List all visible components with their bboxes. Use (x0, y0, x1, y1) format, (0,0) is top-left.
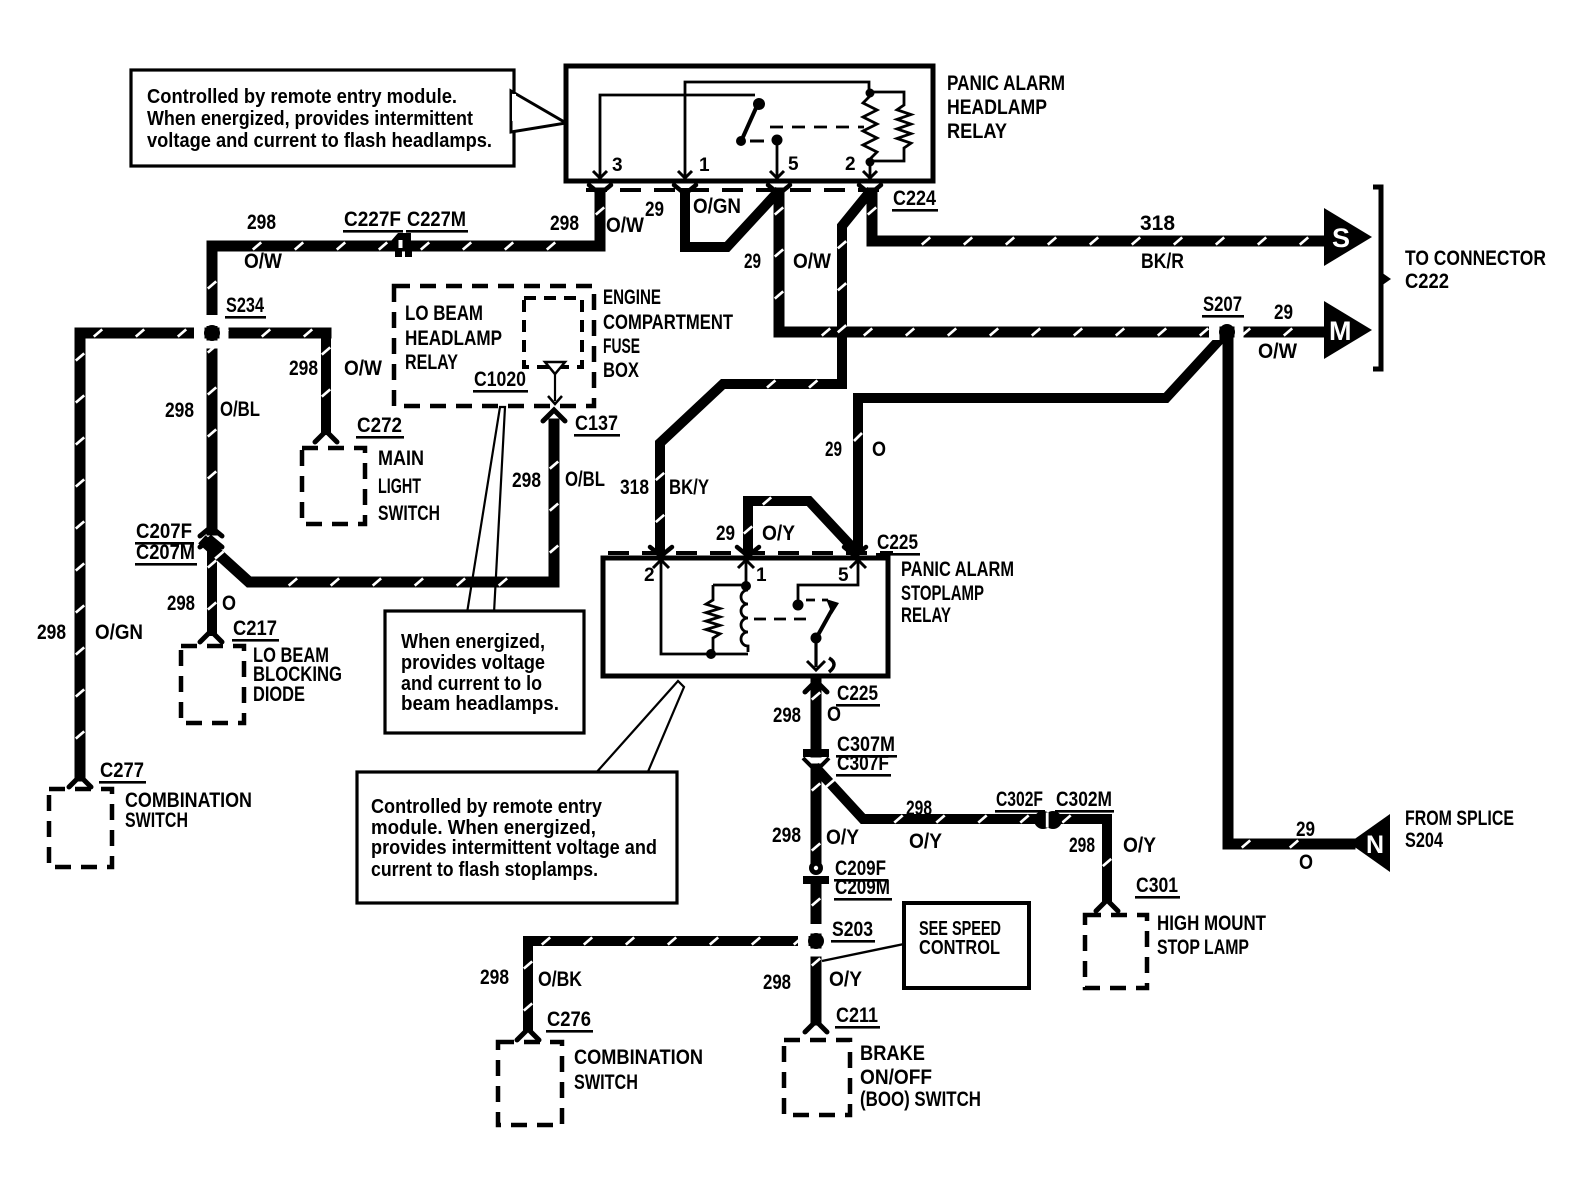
relay1 pin 2 internal wire (869, 162, 872, 179)
connector label C211 (835, 1004, 880, 1029)
wire gauge label 298 O/GN (37, 621, 66, 644)
component label LIGHT (378, 475, 421, 498)
svg-text:provides voltage: provides voltage (401, 652, 545, 674)
connector C1020 fuse terminal (545, 362, 565, 404)
component label ON/OFF (860, 1066, 932, 1089)
wire gauge label 29 O/Y loop (716, 522, 735, 545)
svg-text:5: 5 (788, 154, 799, 175)
svg-text:STOP LAMP: STOP LAMP (1157, 936, 1249, 959)
wire color label O/BL (220, 398, 260, 421)
wire gap right of splice S234 (220, 325, 229, 341)
wire 298 O/W from relay pin 3 to splice S234 (208, 193, 604, 331)
svg-text:O/Y: O/Y (909, 830, 942, 853)
svg-text:M: M (1329, 316, 1352, 346)
svg-text:PANIC ALARM: PANIC ALARM (947, 72, 1065, 95)
svg-text:C307F: C307F (837, 752, 889, 775)
relay1 coil bottom junction dot (866, 158, 875, 167)
connector label C276 (546, 1008, 593, 1033)
relay2 switch output wire (814, 641, 817, 667)
wire color label BK/R (1141, 250, 1184, 273)
svg-text:O/GN: O/GN (95, 621, 143, 644)
relay2 pin label 5 (838, 565, 849, 586)
bracket for connector C222 (1373, 187, 1391, 369)
connector label C207F (135, 520, 194, 545)
wire color label O/W at S207 (1258, 340, 1297, 363)
svg-text:C225: C225 (837, 682, 878, 705)
wire gauge label 298 C211 (763, 971, 791, 994)
svg-text:beam headlamps.: beam headlamps. (401, 693, 559, 715)
wire 298 from stoplamp relay switch to connector C225 (812, 678, 820, 752)
connector label C209M (834, 876, 892, 901)
relay1 pin exit arrow at x=685 (678, 171, 692, 178)
svg-text:C225: C225 (877, 531, 918, 554)
relay2 parallel coil bumps (741, 590, 748, 652)
connector C272 terminal arrow (315, 431, 337, 442)
wire gauge label 298 above C209F (772, 824, 801, 847)
svg-text:S: S (1332, 223, 1350, 253)
splice S234 junction dot (204, 325, 220, 341)
wire gauge label 298 O/BL (165, 399, 194, 422)
svg-text:C302M: C302M (1056, 788, 1112, 811)
connector C277 terminal arrow (69, 776, 91, 787)
svg-text:C227M: C227M (407, 208, 466, 231)
relay2 pin 2 internal wire (661, 562, 748, 654)
component label ENGINE (603, 286, 661, 309)
brake on/off switch dashed box (784, 1040, 850, 1115)
connector label C302M (1055, 788, 1114, 813)
wire color label O at pin5 drop (872, 438, 886, 461)
svg-text:C217: C217 (233, 617, 277, 640)
callout 3 text line 3 (371, 837, 657, 859)
wire 298 O/BL from S234 down to connector C207F (208, 331, 216, 530)
relay2 output comma mark (829, 658, 834, 672)
svg-text:STOPLAMP: STOPLAMP (901, 582, 984, 605)
wire 298 O/W branch from S234 to connector C272 (322, 333, 330, 430)
wire 298 O/Y from C209M through splice S203 to connector C211 (812, 884, 820, 1020)
callout 1 text line 2 (147, 108, 473, 130)
svg-text:C207F: C207F (136, 520, 192, 543)
wire color label O/W top left (244, 250, 282, 273)
see speed control text line 2 (919, 937, 1000, 959)
callout 3 text line 2 (371, 817, 596, 839)
svg-text:O/Y: O/Y (826, 826, 859, 849)
component label BRAKE (860, 1042, 925, 1065)
component label FUSE (603, 335, 640, 358)
relay1 coil top junction dot (866, 89, 875, 98)
svg-text:Controlled by remote entry mod: Controlled by remote entry module. (147, 86, 457, 108)
connector C224 dashed line (586, 188, 888, 192)
svg-text:O/BL: O/BL (565, 468, 605, 491)
svg-text:S204: S204 (1405, 829, 1443, 852)
svg-text:voltage and current to flash h: voltage and current to flash headlamps. (147, 130, 492, 152)
svg-text:Controlled by remote entry: Controlled by remote entry (371, 796, 603, 818)
svg-text:O/W: O/W (793, 250, 831, 273)
connector label C137 (574, 412, 620, 437)
connector C224 terminal arrow pin 2 (859, 185, 881, 194)
wire 298 O/BL from C207 connector to fuse box connector C137 (206, 424, 558, 586)
connector C211 terminal arrow (805, 1021, 827, 1032)
wire color label O/Y above C209F (826, 826, 859, 849)
relay1 pin 1 internal wire (685, 82, 869, 179)
svg-text:HEADLAMP: HEADLAMP (947, 96, 1047, 119)
panic alarm headlamp relay box (566, 66, 933, 181)
see speed control note pointer line (822, 944, 904, 961)
wire color label O/BL C137 (565, 468, 605, 491)
component label STOPLAMP (901, 582, 984, 605)
svg-text:29: 29 (825, 438, 842, 461)
connector C225 terminal arrow pin 2 (650, 547, 672, 556)
relay1 coil linkage dashed line (770, 126, 864, 129)
svg-text:1: 1 (699, 155, 710, 176)
component label MAIN (378, 447, 424, 470)
component label SWITCH left (125, 809, 188, 832)
hatch tick on wire 29 vertical (854, 433, 862, 441)
component label LO BEAM (diode) (253, 644, 329, 667)
svg-text:C301: C301 (1136, 874, 1178, 897)
relay1 pin 5 contact dot (772, 135, 783, 146)
wire gauge label 29 pin1 (645, 198, 664, 221)
component label DIODE (253, 683, 305, 706)
svg-text:HIGH MOUNT: HIGH MOUNT (1157, 912, 1266, 935)
svg-text:298: 298 (550, 212, 579, 235)
svg-text:C302F: C302F (996, 788, 1043, 811)
svg-text:When energized,: When energized, (401, 631, 545, 653)
relay1 pin label 2 (845, 154, 856, 175)
svg-text:O/GN: O/GN (693, 195, 741, 218)
svg-text:O/W: O/W (606, 214, 644, 237)
svg-text:COMPARTMENT: COMPARTMENT (603, 311, 733, 334)
wire color label O at C217 (222, 592, 236, 615)
relay1 switch pivot dot (753, 98, 765, 110)
svg-text:5: 5 (838, 565, 849, 586)
wire color label O below C225 (827, 703, 841, 726)
wire gap above splice S203 (808, 924, 824, 934)
connector label C217 (232, 617, 279, 642)
svg-text:O/W: O/W (1258, 340, 1297, 363)
relay2 switch contact dot (811, 633, 822, 644)
component label BLOCKING (253, 663, 342, 686)
wire gauge label 298 right of C227M (550, 212, 579, 235)
panic alarm stoplamp relay box (603, 558, 888, 676)
svg-text:LO BEAM: LO BEAM (405, 302, 483, 325)
callout 2 text line 1 (401, 631, 545, 653)
wire 298 O/Y from C307F to connector C209F (812, 769, 820, 864)
svg-text:C272: C272 (357, 414, 402, 437)
svg-text:298: 298 (773, 704, 801, 727)
svg-text:LIGHT: LIGHT (378, 475, 421, 498)
svg-text:298: 298 (37, 621, 66, 644)
wire gap left of splice S234 (194, 325, 205, 341)
connector C225 terminal arrow pin 5 (844, 547, 866, 556)
relay2 output arrowhead (807, 661, 825, 670)
svg-text:29: 29 (1274, 301, 1293, 324)
component label SWITCH bottom (574, 1071, 638, 1094)
connector label C277 (99, 759, 146, 784)
connector C207F C207M inline connector symbol (200, 527, 222, 547)
connector C307M C307F inline connector symbol (803, 749, 829, 771)
wire color label O/Y branch (909, 830, 942, 853)
see speed control text line 1 (919, 918, 1001, 940)
component label HIGH MOUNT (1157, 912, 1266, 935)
component label BOX (603, 359, 639, 382)
svg-text:BOX: BOX (603, 359, 639, 382)
svg-text:provides intermittent voltage: provides intermittent voltage and (371, 837, 657, 859)
wire gauge label 29 pin5 (744, 250, 761, 273)
svg-text:O: O (827, 703, 841, 726)
relay1 pin exit arrow at x=600 (593, 171, 607, 178)
svg-text:298: 298 (906, 797, 932, 820)
svg-text:BK/R: BK/R (1141, 250, 1184, 273)
relay2 pin entry arrow pin 2 (653, 560, 669, 568)
svg-text:O: O (222, 592, 236, 615)
relay1 pin label 3 (612, 155, 623, 176)
relay2 coil resistor (706, 585, 720, 654)
callout note box pointer wedge to stoplamp relay (595, 681, 684, 774)
wire 298 O/BL from C207M to connector C217 lo beam blocking diode (208, 546, 216, 631)
svg-text:O/Y: O/Y (762, 522, 795, 545)
svg-text:FROM SPLICE: FROM SPLICE (1405, 807, 1514, 830)
connector C276 terminal arrow (517, 1029, 539, 1040)
component label RELAY (stoplamp relay) (901, 604, 951, 627)
splice label S234 (225, 294, 266, 319)
label S204 (1405, 829, 1443, 852)
svg-text:RELAY: RELAY (947, 120, 1007, 143)
svg-text:current to flash stoplamps.: current to flash stoplamps. (371, 859, 598, 881)
wire gap left of splice S203 (798, 933, 809, 949)
svg-text:COMBINATION: COMBINATION (574, 1046, 703, 1069)
svg-text:298: 298 (1069, 834, 1095, 857)
svg-text:298: 298 (247, 211, 276, 234)
connector label C225 bottom (836, 682, 880, 707)
splice S207 junction dot (1219, 324, 1235, 340)
wire 29 from splice S207 to stoplamp relay pin 5 (858, 335, 1224, 548)
wire color label O/BK (538, 968, 582, 991)
label C222 (1405, 270, 1449, 293)
svg-text:BK/Y: BK/Y (669, 476, 709, 499)
component label COMBINATION left (125, 789, 252, 812)
label FROM SPLICE (1405, 807, 1514, 830)
connector C225 dashed line (608, 551, 893, 555)
svg-text:298: 298 (772, 824, 801, 847)
callout 1 text line 3 (147, 130, 492, 152)
relay1 pin label 1 (699, 155, 710, 176)
svg-text:O/BL: O/BL (220, 398, 260, 421)
wire gauge label 298 C301 (1069, 834, 1095, 857)
splice S203 junction dot (808, 933, 824, 949)
wire gauge label 29 at S207 (1274, 301, 1293, 324)
connector C225 terminal arrow pin 1 (737, 547, 759, 556)
svg-text:C224: C224 (893, 187, 936, 210)
label TO CONNECTOR (1405, 247, 1546, 270)
connector label C227M (406, 208, 468, 233)
svg-text:CONTROL: CONTROL (919, 937, 1000, 959)
svg-text:SWITCH: SWITCH (574, 1071, 638, 1094)
svg-text:C209M: C209M (835, 876, 890, 899)
wire 29 O/W from relay pin 5 through splice S207 to arrow M (775, 193, 1326, 336)
lo beam headlamp relay dashed box (394, 286, 594, 406)
relay2 pin entry arrow pin 1 (738, 560, 754, 568)
connector C224 terminal arrow pin 5 (768, 185, 790, 194)
high mount stop lamp dashed box (1085, 915, 1147, 988)
connector label C225 top (876, 531, 920, 556)
svg-text:318: 318 (1140, 212, 1175, 235)
wire color label O at N arrow (1299, 851, 1313, 874)
svg-text:(BOO) SWITCH: (BOO) SWITCH (860, 1088, 981, 1111)
component label PANIC ALARM (headlamp relay) (947, 72, 1065, 95)
wire gauge label 298 O/BK (480, 966, 509, 989)
svg-text:1: 1 (756, 565, 767, 586)
svg-text:O/BK: O/BK (538, 968, 582, 991)
relay1 pin 5 internal wire (776, 145, 779, 179)
svg-text:O: O (1299, 851, 1313, 874)
relay1 coil resistor (863, 96, 877, 159)
connector label C227F (343, 208, 403, 233)
callout 3 text line 4 (371, 859, 598, 881)
svg-text:C207M: C207M (136, 541, 195, 564)
svg-text:29: 29 (645, 198, 664, 221)
wire 298 O/BK from splice S203 to connector C276 combination switch (524, 937, 816, 1026)
callout 2 text line 3 (401, 673, 542, 695)
relay1 contact link dash (750, 140, 764, 143)
relay2 pin entry arrow pin 5 (850, 560, 866, 568)
component label RELAY (headlamp relay) (947, 120, 1007, 143)
wire color label O/W C272 branch (344, 357, 382, 380)
wire gauge label 29 at N arrow (1296, 818, 1315, 841)
component label STOP LAMP (1157, 936, 1249, 959)
relay2 pin label 2 (644, 565, 655, 586)
svg-text:298: 298 (512, 469, 541, 492)
relay2 pin 1 internal wire (745, 562, 748, 583)
wire gauge label 298 C272 branch (289, 357, 318, 380)
lo beam blocking diode dashed box (181, 646, 244, 723)
component label COMPARTMENT (603, 311, 733, 334)
wire gauge label 298 C137 (512, 469, 541, 492)
svg-text:O/Y: O/Y (829, 968, 862, 991)
wire gap right of splice S207 (1235, 324, 1244, 340)
relay1 pin exit arrow at x=870 (863, 171, 877, 178)
connector C227F C227M inline connector symbol (391, 233, 412, 257)
wire color label O/Y C211 (829, 968, 862, 991)
component label PANIC ALARM (stoplamp relay) (901, 558, 1014, 581)
svg-text:298: 298 (289, 357, 318, 380)
relay2 coil top link (713, 584, 746, 587)
wire color label O/W pin3 wire (606, 214, 644, 237)
callout note box pointer wedge to lo beam relay (467, 407, 505, 613)
svg-text:TO CONNECTOR: TO CONNECTOR (1405, 247, 1546, 270)
wire gauge label 29 at pin5 drop (825, 438, 842, 461)
wire 29 horizontal to arrow N (1228, 840, 1350, 847)
svg-text:BRAKE: BRAKE (860, 1042, 925, 1065)
svg-text:C276: C276 (547, 1008, 591, 1031)
arrow S to connector C222 (1324, 208, 1372, 266)
wire color label O/Y C301 (1123, 834, 1156, 857)
wire color label O/GN pin1 (693, 195, 741, 218)
svg-text:RELAY: RELAY (405, 351, 458, 374)
connector C224 terminal arrow pin 3 (589, 185, 611, 194)
callout 1 text line 1 (147, 86, 457, 108)
svg-text:FUSE: FUSE (603, 335, 640, 358)
connector label C209F (834, 857, 888, 882)
relay2 switch arm (818, 599, 839, 635)
connector label C301 (1135, 874, 1180, 899)
callout note box: when energized lo beam headlamps (385, 611, 584, 733)
connector label C272 (356, 414, 404, 439)
connector label C307F (836, 752, 891, 777)
splice label S203 (831, 918, 875, 943)
connector C302F C302M inline connector symbol (1034, 811, 1062, 829)
callout note box: controlled by remote entry module (stoplamps) (357, 772, 677, 903)
wire 318 BK/R from relay pin 2 to arrow S (868, 193, 1326, 245)
wire 29 O/Y loop from stoplamp pin 1 to pin 5 (744, 497, 852, 548)
splice label S207 (1202, 293, 1244, 318)
svg-text:HEADLAMP: HEADLAMP (405, 327, 502, 350)
svg-text:298: 298 (167, 592, 195, 615)
svg-text:3: 3 (612, 155, 623, 176)
svg-text:PANIC ALARM: PANIC ALARM (901, 558, 1014, 581)
component label LO BEAM (relay) (405, 302, 483, 325)
svg-text:and current to lo: and current to lo (401, 673, 542, 695)
svg-text:O/Y: O/Y (1123, 834, 1156, 857)
svg-text:MAIN: MAIN (378, 447, 424, 470)
svg-text:298: 298 (480, 966, 509, 989)
svg-text:29: 29 (1296, 818, 1315, 841)
svg-text:module. When energized,: module. When energized, (371, 817, 596, 839)
arrow M to connector C222 (1324, 301, 1372, 359)
wire 298 O/Y branch from C307F to high mount stop lamp connector C301 (818, 770, 1111, 898)
connector C217 terminal arrow (200, 631, 222, 642)
wire gauge label 298 below C225 (773, 704, 801, 727)
relay2 pin 5 internal wire (798, 562, 858, 600)
svg-text:29: 29 (744, 250, 761, 273)
svg-text:318: 318 (620, 476, 649, 499)
svg-text:2: 2 (644, 565, 655, 586)
component label HEADLAMP (lo beam relay) (405, 327, 502, 350)
svg-text:O/W: O/W (344, 357, 382, 380)
relay2 coil top junction dot (741, 581, 751, 591)
fuse dashed box inside fuse box (524, 298, 582, 367)
component label (BOO) SWITCH (860, 1088, 981, 1111)
relay1 parallel resistor (870, 92, 911, 161)
svg-text:C1020: C1020 (474, 368, 526, 391)
wire gap left of splice S207 (1209, 324, 1220, 340)
component label HEADLAMP (headlamp relay) (947, 96, 1047, 119)
svg-text:O/W: O/W (244, 250, 282, 273)
svg-text:C277: C277 (100, 759, 144, 782)
component label RELAY (lo beam relay) (405, 351, 458, 374)
connector label C1020 (473, 368, 528, 393)
svg-text:S207: S207 (1203, 293, 1242, 316)
relay2 coil bottom junction dot (706, 649, 716, 659)
connector label C224 (892, 187, 938, 212)
callout 2 text line 4 (401, 693, 559, 715)
relay1 pin 3 internal wire (600, 95, 755, 179)
svg-text:29: 29 (716, 522, 735, 545)
svg-text:C137: C137 (575, 412, 618, 435)
svg-text:RELAY: RELAY (901, 604, 951, 627)
wire gap below splice S234 (204, 341, 220, 349)
svg-text:ENGINE: ENGINE (603, 286, 661, 309)
callout 2 text line 2 (401, 652, 545, 674)
svg-text:DIODE: DIODE (253, 683, 305, 706)
wire gauge label 298 C217 (167, 592, 195, 615)
component label SWITCH (main light switch) (378, 502, 440, 525)
relay2 pivot linkage dashes (806, 599, 828, 602)
main light switch dashed box (302, 448, 365, 524)
relay1 switch contact dot (736, 136, 746, 146)
wire 298 from splice S234 to connector C277 combination switch (76, 329, 326, 776)
wire color label O/Y loop (762, 522, 795, 545)
combination switch dashed box bottom (498, 1042, 562, 1125)
